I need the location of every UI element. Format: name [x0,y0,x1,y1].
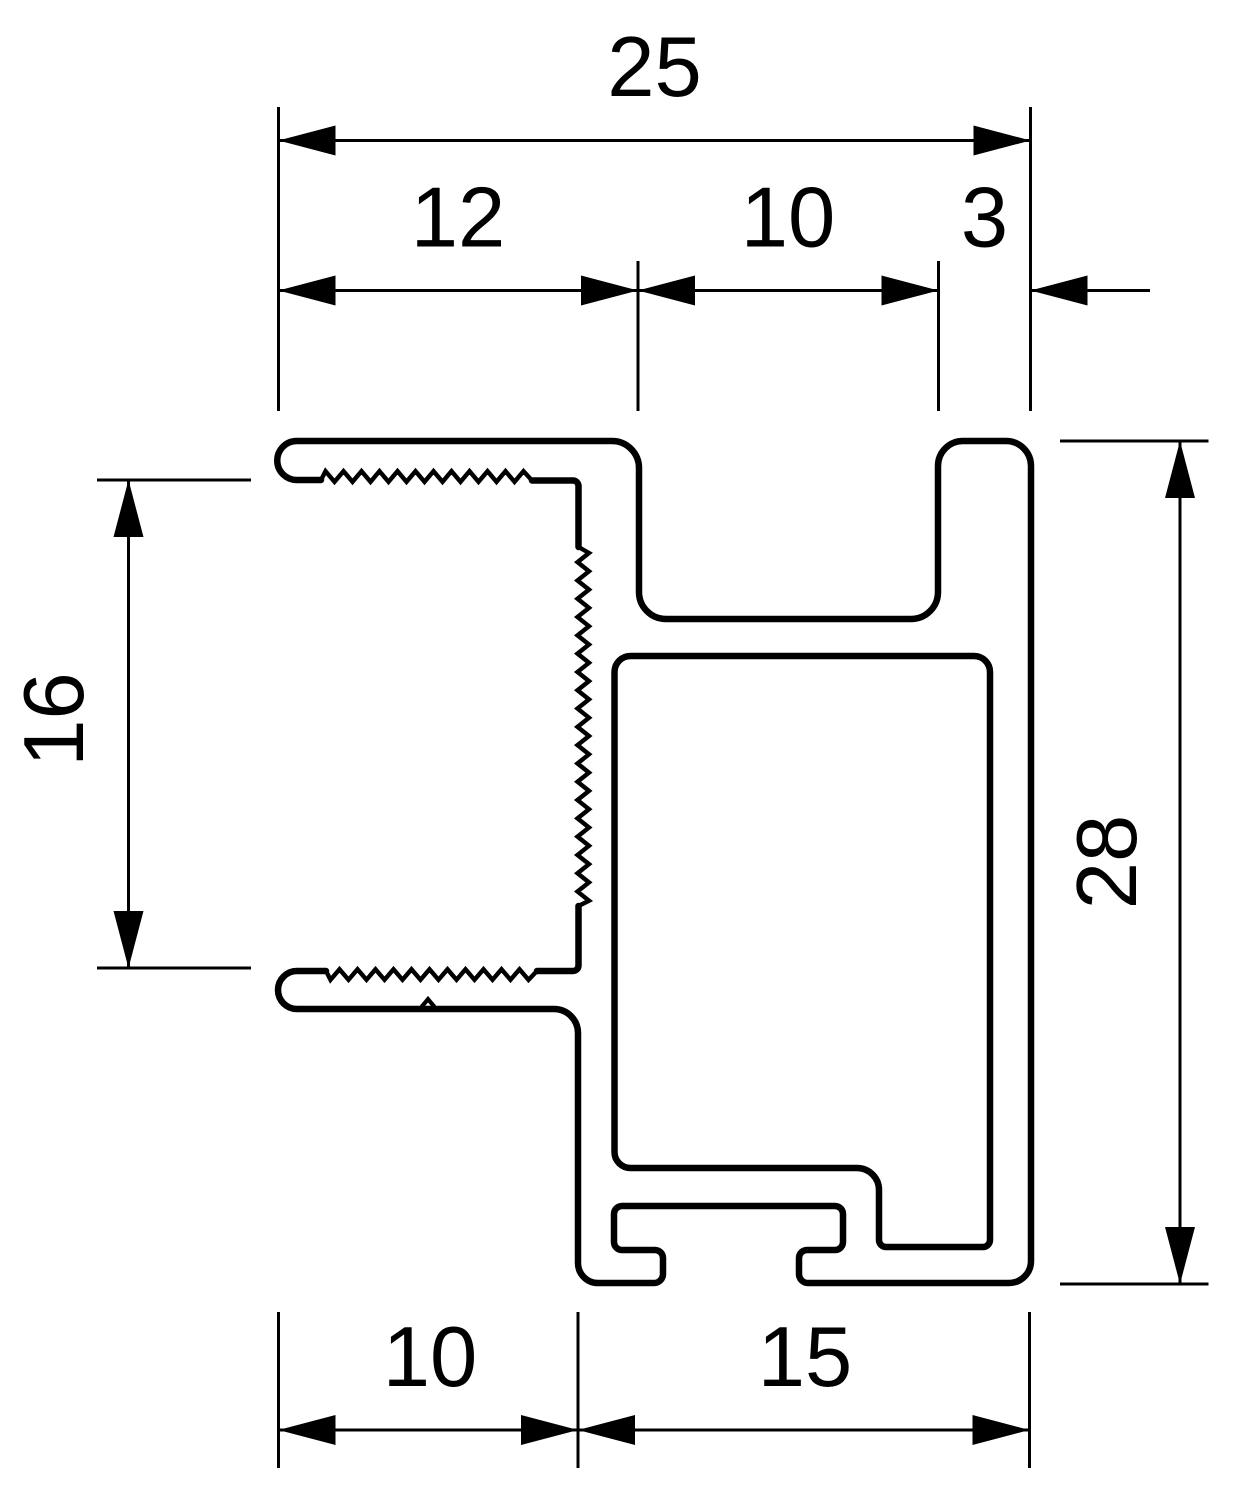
svg-text:15: 15 [758,1310,853,1405]
arrowhead bottom-15 left [578,1415,635,1445]
extension line 28 top [1060,440,1209,443]
extension line 28 bottom [1060,1283,1209,1286]
extension line x938 [937,261,940,411]
arrowhead 12 right [581,276,638,306]
extension line x278 bottom [277,1312,280,1468]
extension line 16 top [97,479,251,482]
extension line x638 [637,261,640,411]
notch marker on bottom flange [419,999,437,1010]
inner chamber [615,656,991,1247]
dimension line bottom 10 and 15 [279,1429,1030,1432]
arrowhead 25 right [974,126,1031,156]
dimension line 25 [279,139,1031,142]
arrowhead 25 left [279,126,336,156]
arrowhead 12 left [279,276,336,306]
dimension tail 3 [1031,289,1151,292]
arrowhead 16 top [114,480,144,537]
arrowhead 10 left [638,276,695,306]
serration bottom flange [326,969,537,980]
svg-text:10: 10 [741,171,836,266]
arrowhead 28 bottom [1165,1227,1195,1284]
serration top flange [321,471,532,482]
serration web [578,547,590,906]
extension line x1031 top [1029,107,1032,411]
dimension line 28 [1179,441,1182,1284]
arrowhead 3 [1031,276,1088,306]
arrowhead 16 bottom [114,911,144,968]
svg-text:16: 16 [7,672,102,767]
arrowhead bottom-15 right [973,1415,1030,1445]
extension line x1029 bottom [1028,1312,1031,1468]
arrowhead bottom-10 left [279,1415,336,1445]
svg-text:28: 28 [1060,815,1155,910]
extension line 16 bottom [97,967,251,970]
svg-text:25: 25 [607,20,702,115]
arrowhead bottom-10 right [521,1415,578,1445]
arrowhead 28 top [1165,441,1195,498]
svg-text:3: 3 [961,171,1008,266]
svg-text:10: 10 [383,1310,478,1405]
svg-text:12: 12 [411,171,506,266]
profile outline (aluminium extrusion cross-section) [277,441,1031,1283]
dimension line 12 and 10 [279,289,939,292]
arrowhead 10 right [882,276,939,306]
extension line x578 bottom [577,1312,580,1468]
extension line left x278 top [277,107,280,411]
dimension line 16 [127,480,130,968]
